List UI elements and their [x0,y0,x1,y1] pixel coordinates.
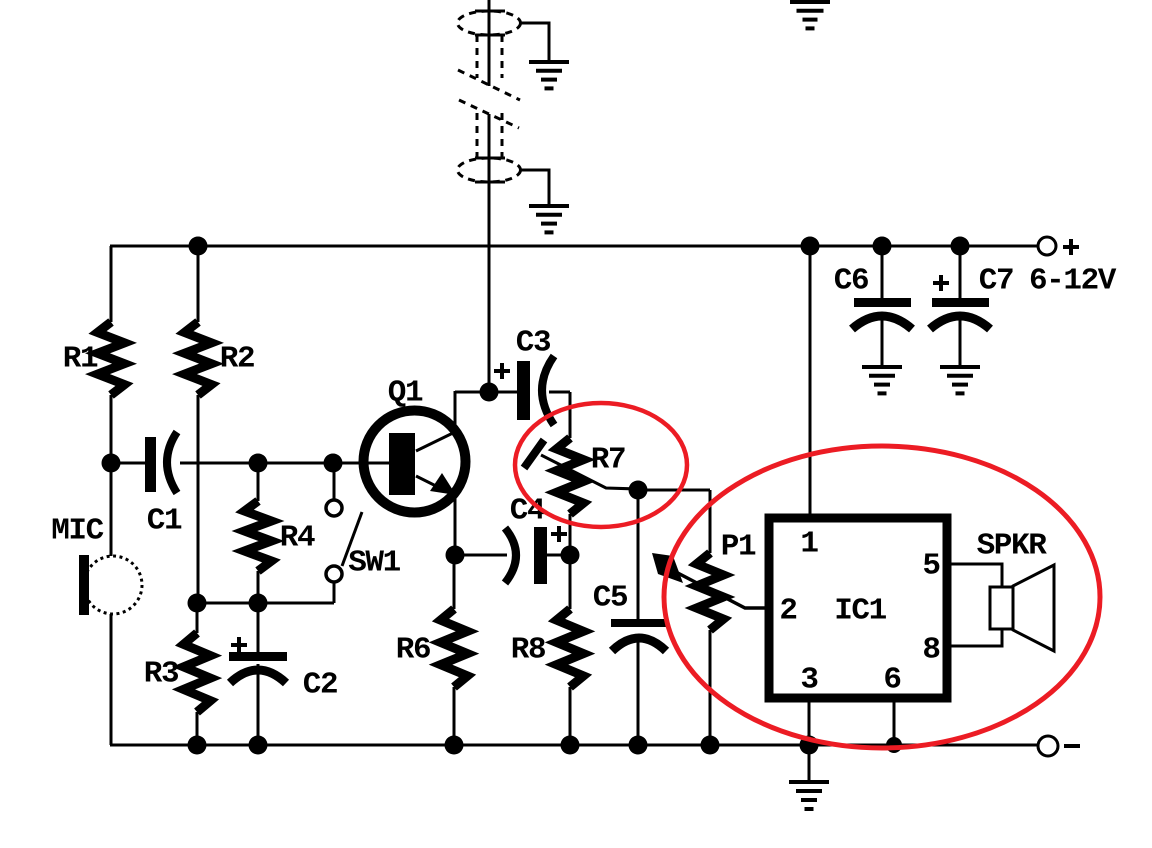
svg-text:5: 5 [922,549,939,584]
svg-text:2: 2 [779,594,796,629]
svg-text:SPKR: SPKR [977,529,1048,564]
svg-text:R4: R4 [280,521,315,556]
svg-text:SW1: SW1 [348,546,400,581]
svg-text:6: 6 [883,663,900,698]
svg-text:Q1: Q1 [388,376,423,411]
svg-text:1: 1 [800,527,818,562]
svg-text:C3: C3 [516,326,551,361]
svg-text:R8: R8 [511,633,545,668]
svg-text:C6: C6 [834,264,868,299]
svg-text:R3: R3 [144,657,179,692]
svg-text:P1: P1 [721,530,756,565]
svg-text:C7: C7 [979,264,1013,299]
svg-text:R1: R1 [63,342,98,377]
svg-text:6-12V: 6-12V [1029,264,1117,299]
svg-text:R6: R6 [396,633,430,668]
svg-text:IC1: IC1 [834,594,886,629]
svg-text:3: 3 [800,663,818,698]
svg-text:C2: C2 [303,668,337,703]
svg-text:MIC: MIC [51,514,103,549]
svg-text:C5: C5 [593,581,627,616]
svg-text:R7: R7 [591,443,625,478]
svg-text:C1: C1 [147,504,182,539]
svg-text:8: 8 [922,633,939,668]
svg-text:R2: R2 [220,342,254,377]
